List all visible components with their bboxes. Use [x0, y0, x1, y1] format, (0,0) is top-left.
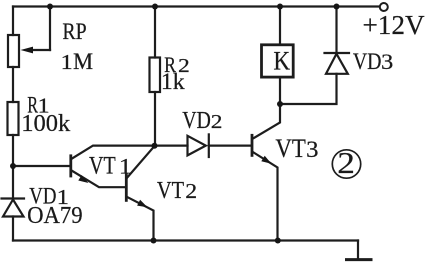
svg-text:VT: VT	[89, 151, 116, 180]
transistor VT1 emitter lead	[72, 171, 127, 188]
wire R2 to node A	[154, 92, 156, 146]
wire VD3 to node B	[280, 74, 337, 104]
wire VD3 branch down	[335, 7, 337, 54]
wire top rail	[13, 5, 380, 7]
resistor R2 body	[150, 58, 161, 93]
svg-text:1k: 1k	[161, 69, 185, 94]
junction RP tap on top rail	[47, 4, 53, 10]
wire left vertical (top rail to RP)	[12, 7, 14, 36]
ground stem	[357, 241, 359, 260]
transistor VT3 base bar	[251, 135, 254, 155]
diode VD1 cathode bar	[2, 197, 25, 199]
arrow VT1 emitter	[78, 175, 88, 183]
junction VT3 emitter on bottom rail	[275, 238, 281, 244]
junction R2 on top rail	[152, 4, 158, 10]
resistor RP body	[8, 35, 19, 67]
junction left rail to VT1 base	[10, 163, 16, 169]
wire top rail to R2	[154, 7, 156, 58]
svg-text:VD: VD	[182, 108, 211, 134]
arrow VT2 emitter	[137, 200, 147, 208]
arrow RP wiper	[21, 47, 34, 54]
wire R1 to VD1	[12, 135, 14, 199]
wire bottom rail	[13, 239, 358, 241]
transistor VT1 collector lead	[72, 146, 155, 159]
diode VD3 cathode bar	[325, 52, 350, 54]
svg-text:100k: 100k	[21, 111, 70, 137]
diode VD3 triangle	[326, 54, 348, 74]
wire RP wiper vertical	[49, 7, 51, 51]
svg-text:VD: VD	[353, 49, 382, 75]
svg-text:3: 3	[306, 137, 318, 163]
diode VD1 triangle	[3, 200, 24, 217]
wire VD2 to VT3 base	[209, 145, 252, 147]
junction VT2 emitter on bottom rail	[151, 238, 157, 244]
node B junction (K / VD3 / VT3 collector)	[277, 101, 283, 107]
arrow VT3 emitter	[261, 156, 271, 164]
svg-text:2: 2	[211, 111, 223, 133]
transistor VT2 collector lead	[127, 146, 155, 178]
wire top rail to K	[279, 7, 281, 44]
label circle 2	[332, 150, 360, 178]
junction VD3 on top rail	[334, 4, 340, 10]
ground bar	[347, 258, 372, 261]
wire RP wiper horizontal	[31, 49, 50, 51]
wire node to VT1 base	[13, 165, 70, 167]
relay K coil box	[262, 45, 294, 77]
wire node A to VD2	[155, 145, 188, 147]
svg-text:VT: VT	[157, 177, 184, 204]
diode VD2 triangle	[188, 136, 206, 156]
svg-text:2: 2	[185, 180, 197, 203]
svg-text:+12V: +12V	[362, 10, 425, 40]
resistor R1 body	[8, 102, 19, 135]
transistor VT2 base bar	[125, 175, 128, 201]
transistor VT1 base bar	[69, 156, 72, 176]
svg-text:OA79: OA79	[27, 202, 83, 229]
svg-text:K: K	[273, 46, 290, 76]
svg-text:VT: VT	[275, 133, 305, 163]
svg-text:1: 1	[60, 50, 72, 74]
wire VD1 to bottom rail	[12, 217, 14, 241]
svg-text:M: M	[73, 49, 93, 75]
svg-text:1: 1	[119, 154, 132, 179]
terminal +12V circle	[380, 3, 388, 11]
svg-text:3: 3	[381, 49, 393, 74]
transistor VT2 emitter lead	[127, 197, 154, 241]
node A junction	[152, 143, 158, 149]
svg-text:2: 2	[337, 146, 355, 180]
transistor VT3 emitter lead	[253, 152, 278, 241]
transistor VT3 collector lead	[253, 79, 281, 139]
wire RP to R1	[12, 67, 14, 102]
svg-text:RP: RP	[62, 18, 86, 44]
diode VD2 cathode bar	[208, 134, 210, 157]
junction K on top rail	[277, 4, 283, 10]
